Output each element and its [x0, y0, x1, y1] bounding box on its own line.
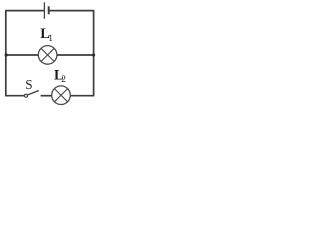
wire: lamp L2 to bottom-right: [70, 95, 94, 97]
wire: middle branch left to lamp L1: [6, 54, 39, 56]
battery cell: short plate: [48, 6, 50, 14]
svg-text:S: S: [25, 77, 32, 92]
wire: battery to top-right: [49, 10, 94, 12]
battery cell: long plate: [43, 2, 45, 19]
lamp L2 symbol: [52, 86, 71, 105]
wire: top-left to battery: [5, 10, 44, 12]
wire: middle branch lamp L1 to right: [57, 54, 94, 56]
wire: right vertical: [93, 11, 95, 96]
wire: switch to lamp L2: [41, 95, 52, 97]
node: junction dot left: [5, 53, 8, 56]
lamp L1 symbol: [38, 46, 57, 65]
svg-text:2: 2: [61, 75, 66, 85]
node: junction dot right: [92, 53, 95, 56]
background: [0, 0, 100, 106]
switch S: lever: [27, 91, 38, 96]
switch S: terminal circle: [25, 94, 28, 97]
svg-text:1: 1: [48, 34, 53, 44]
wire: left vertical: [5, 11, 7, 96]
wire: bottom-left to switch: [5, 95, 24, 97]
